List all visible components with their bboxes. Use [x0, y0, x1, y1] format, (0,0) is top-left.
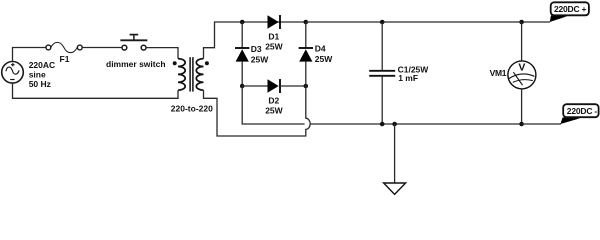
- svg-text:220-to-220: 220-to-220: [171, 103, 213, 113]
- diode D1: [268, 15, 281, 29]
- capacitor C1: [369, 22, 395, 124]
- node D junction dot (AC2): [304, 84, 309, 89]
- svg-text:VM1: VM1: [490, 68, 507, 78]
- svg-text:25W: 25W: [265, 106, 283, 116]
- switch SW1 (push button): [120, 35, 147, 50]
- junction dot: voltmeter bottom tap: [519, 122, 524, 127]
- fuse F1: [46, 42, 82, 52]
- wire: bridge top rail (node A to node B): [242, 21, 306, 23]
- svg-text:1 mF: 1 mF: [398, 73, 418, 83]
- wire: source top to fuse: [13, 48, 47, 62]
- wire: bottom rail right of hop to VM: [310, 123, 521, 125]
- svg-text:F1: F1: [60, 54, 70, 64]
- svg-text:220DC -: 220DC -: [567, 106, 598, 116]
- junction dot: voltmeter top tap: [519, 20, 524, 25]
- wire: left rail upper (node A to D3): [241, 22, 243, 48]
- diode D2: [268, 79, 281, 93]
- label C1/25W 1 mF: [398, 65, 430, 83]
- svg-text:D4: D4: [315, 44, 326, 54]
- wire: node C down to bottom rail: [242, 86, 304, 124]
- primary winding: [178, 59, 185, 91]
- wire: node B to DC+ flag, with taps: [306, 21, 550, 23]
- wire: primary bottom to source bottom: [13, 83, 179, 98]
- svg-text:V: V: [518, 62, 525, 74]
- voltmeter VM1: [508, 22, 536, 124]
- phase dot secondary: [205, 61, 209, 65]
- wire: D2 to node D: [281, 85, 306, 87]
- label D3 25W: [251, 44, 269, 64]
- wire: bottom rail to DC- flag: [522, 123, 561, 125]
- junction dot: capacitor bottom tap: [380, 122, 385, 127]
- node C junction dot (DC-): [240, 84, 245, 89]
- core: [189, 57, 191, 91]
- wire: secondary bottom to node D (AC2 riser): [204, 86, 311, 136]
- wire: fuse to switch: [82, 47, 122, 49]
- wire: left rail lower (D3 to node C): [241, 62, 243, 86]
- wire: right rail upper (node B to D4): [305, 22, 307, 48]
- svg-text:D1: D1: [268, 32, 279, 42]
- label D1 25W: [265, 32, 283, 52]
- svg-text:220DC +: 220DC +: [554, 4, 587, 14]
- svg-text:50 Hz: 50 Hz: [29, 79, 51, 89]
- node B junction dot (DC+): [304, 20, 309, 25]
- phase dot primary: [173, 61, 177, 65]
- label D2 25W: [265, 96, 283, 116]
- diode D3: [235, 48, 249, 62]
- junction dot: ground tap: [392, 122, 397, 127]
- node A junction dot: [240, 20, 245, 25]
- svg-text:25W: 25W: [265, 42, 283, 52]
- secondary winding: [196, 59, 203, 91]
- svg-text:D3: D3: [251, 44, 262, 54]
- voltage source V1 (220AC sine): [2, 62, 24, 84]
- wire: switch to transformer primary top: [146, 48, 178, 59]
- svg-text:25W: 25W: [315, 54, 333, 64]
- svg-text:dimmer switch: dimmer switch: [106, 59, 166, 69]
- transformer T1: [173, 57, 209, 91]
- wire: middle row node C to D2: [242, 85, 267, 87]
- label D4 25W: [315, 44, 333, 65]
- label V1 value: 220AC / sine / 50 Hz: [29, 60, 55, 89]
- wire: right rail lower (D4 to node D): [305, 62, 307, 86]
- flag 220DC -: [560, 104, 598, 124]
- diode D4: [299, 48, 313, 62]
- svg-text:25W: 25W: [251, 54, 269, 64]
- svg-text:D2: D2: [268, 96, 279, 106]
- flag 220DC +: [550, 2, 589, 22]
- junction dot: capacitor top tap: [380, 20, 385, 25]
- ground GND: [384, 124, 406, 194]
- wire: secondary top to bridge node A: [204, 22, 243, 59]
- svg-text:220AC: 220AC: [29, 60, 55, 70]
